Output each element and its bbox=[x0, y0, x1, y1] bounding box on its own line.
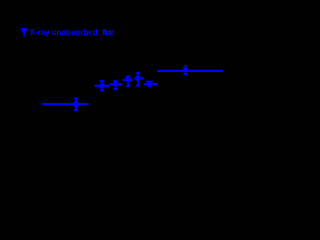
P3 y error bar stem bbox=[115, 81, 117, 89]
P2 y error bar stem bbox=[101, 81, 103, 90]
P7 bottom cap bbox=[183, 73, 187, 75]
P5 top cap bbox=[136, 72, 140, 74]
P6 top cap bbox=[146, 81, 153, 83]
P4 top cap bbox=[126, 76, 130, 78]
data point P1 bbox=[42, 98, 89, 110]
P6 marker bbox=[147, 82, 152, 86]
P4 x error bar bbox=[123, 79, 133, 81]
P7 top cap bbox=[184, 65, 186, 67]
P1 top cap bbox=[74, 98, 78, 100]
P6 bottom cap bbox=[148, 85, 151, 87]
data point P3 bbox=[110, 81, 123, 89]
data point P4 bbox=[123, 77, 133, 86]
svg-text:flux: flux bbox=[102, 28, 114, 37]
P1 y error bar stem bbox=[75, 98, 77, 110]
P2 top cap bbox=[100, 80, 104, 82]
P4 bottom cap bbox=[126, 85, 130, 87]
P5 x error bar bbox=[134, 77, 143, 79]
P6 y error bar stem bbox=[149, 82, 151, 87]
P2 bottom cap bbox=[100, 89, 104, 91]
P5 bottom cap bbox=[136, 85, 140, 87]
P2 x error bar bbox=[95, 85, 110, 87]
P3 bottom cap bbox=[113, 88, 117, 90]
P1 x error bar bbox=[42, 103, 89, 105]
P7 x error bar bbox=[157, 70, 223, 72]
legend upper-limit arrow symbol bbox=[21, 28, 28, 37]
data point P7 bbox=[157, 66, 223, 74]
data point P2 bbox=[95, 81, 110, 90]
data point P5 bbox=[134, 73, 143, 86]
P5 marker bbox=[136, 76, 141, 81]
svg-text:X-ray unabsorbed: X-ray unabsorbed bbox=[30, 28, 98, 37]
P2 marker bbox=[100, 84, 105, 89]
P1 bottom cap bbox=[74, 109, 78, 111]
P6 x error bar bbox=[144, 83, 158, 85]
P1 marker bbox=[74, 102, 79, 107]
P4 marker bbox=[126, 77, 131, 82]
P7 marker bbox=[183, 67, 188, 72]
P5 y error bar stem bbox=[137, 73, 139, 86]
P7 y error bar stem bbox=[184, 66, 186, 74]
P3 top cap bbox=[113, 80, 117, 82]
P3 x error bar bbox=[110, 83, 123, 85]
P3 marker bbox=[113, 81, 118, 86]
data point P6 bbox=[144, 82, 158, 87]
P4 y error bar stem bbox=[127, 77, 129, 86]
